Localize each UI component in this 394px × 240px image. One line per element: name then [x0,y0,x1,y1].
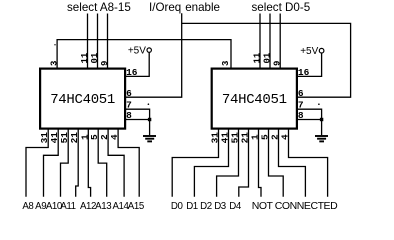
wire U1 select S0 into pin 9 [107,14,109,69]
svg-text:A12: A12 [80,201,96,212]
wire I/Oreq enable down to U1 pin 6 [125,13,182,97]
wire U1 pin 7 to ground rail [125,109,150,119]
svg-text:7: 7 [126,100,132,111]
wire U1 pin 1 to A12 [88,129,90,197]
wire U2 pin 13 to D0 [172,129,218,197]
wire U2 pin 1 to D4 [259,129,262,197]
wire U1 pin 14 to A9 [44,129,59,197]
svg-text:D1: D1 [186,201,198,212]
svg-text:D2: D2 [200,201,212,212]
svg-text:A15: A15 [128,201,144,212]
+5V supply symbol U2 [319,48,324,53]
svg-text:+5V: +5V [300,46,318,57]
svg-text:9: 9 [100,61,110,66]
svg-text:select D0-5: select D0-5 [252,1,311,14]
IC U2 74HC4051 body [212,69,297,129]
svg-text:74HC4051: 74HC4051 [222,92,287,108]
wire U1 pin 8 to ground rail [125,119,150,121]
svg-text:6: 6 [298,88,304,99]
svg-text:I/Oreq: I/Oreq [149,1,181,14]
svg-text:A8: A8 [22,201,33,212]
wire U1 pin 4 to A15 [118,129,139,197]
wire U2 pin 5 not connected stub [269,129,284,197]
wire U1 pin 2 to A14 [108,129,124,197]
wire U2 pin 14 to D1 [194,129,228,197]
wire U2 pin 8 to ground rail [297,119,322,121]
wire U2 pin 16 to +5V [297,53,322,76]
svg-text:4: 4 [109,134,120,140]
wire U1 pin 5 to A13 [98,129,107,197]
svg-text:A9: A9 [35,201,46,212]
wire U2 pin 12 to D3 [239,129,249,197]
stray dot near U2 pin 7 [318,103,320,105]
svg-text:A11: A11 [60,201,75,212]
wire net Z joining U1 pin 3 and U2 pin 3 [57,40,231,69]
stray dot near U1 pin 3 corner [54,44,55,45]
wire U1 pin 16 to +5V [125,52,149,76]
wire U2 pin 2 not connected stub [279,129,306,197]
wire I/Oreq enable branch to U2 pin 6 [182,23,351,97]
wire U1 pin 15 to A10 [61,129,69,197]
ground symbol U1 [143,120,156,142]
stray dot near U1 pin 7 [148,103,150,105]
svg-text:01: 01 [90,52,100,63]
svg-text:9: 9 [273,61,283,66]
+5V supply symbol U1 [147,48,151,52]
wire U1 select S2 into pin 11 [87,14,89,69]
ground symbol U2 [315,120,328,142]
svg-text:enable: enable [185,1,220,14]
wire U2 select S2 into pin 11 [259,14,261,69]
svg-text:A13: A13 [95,201,111,212]
wire U2 pin 15 to D2 [217,129,239,197]
svg-text:3: 3 [49,61,59,66]
svg-text:11: 11 [252,52,262,63]
wire U2 select S1 into pin 10 [269,14,271,69]
svg-text:+5V: +5V [128,46,146,57]
svg-text:8: 8 [126,110,132,121]
svg-text:6: 6 [126,88,132,99]
wire U2 select S0 into pin 9 [279,14,281,69]
svg-text:select A8-15: select A8-15 [67,1,131,14]
junction U1 pins 7-8 ground [148,118,151,121]
svg-text:01: 01 [262,52,272,63]
svg-text:4: 4 [280,134,291,140]
junction U2 pins 7-8 ground [320,118,323,121]
svg-text:16: 16 [126,67,138,78]
svg-text:D4: D4 [229,201,242,212]
svg-text:NOT CONNECTED: NOT CONNECTED [252,200,338,212]
svg-text:D0: D0 [171,201,184,212]
wire U1 select S1 into pin 10 [97,14,99,69]
svg-text:16: 16 [298,67,310,78]
wire U2 pin 7 to ground rail [297,109,322,119]
wire U2 pin 4 not connected stub [289,129,328,197]
svg-text:11: 11 [80,52,90,63]
svg-text:74HC4051: 74HC4051 [50,92,115,108]
svg-text:3: 3 [221,61,231,66]
wire U1 pin 13 to A8 [26,129,48,197]
wire U1 pin 12 to A11 [76,129,79,197]
svg-text:D3: D3 [214,201,226,212]
IC U1 74HC4051 body [40,69,125,129]
svg-text:7: 7 [298,100,304,111]
svg-text:8: 8 [298,110,304,121]
